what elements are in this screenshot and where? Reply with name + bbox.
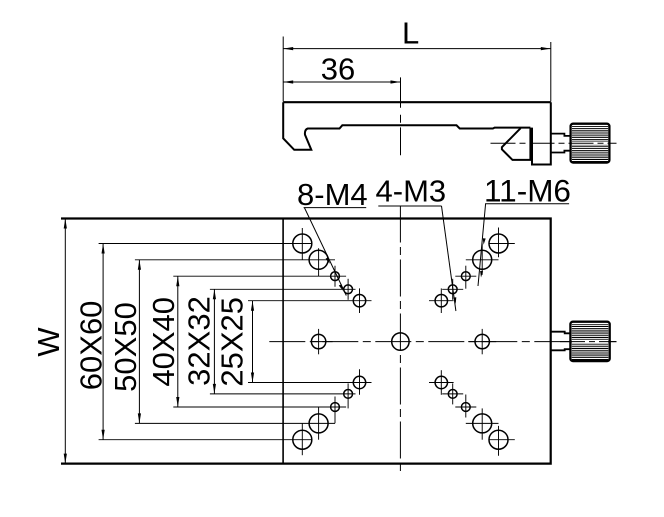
hole M6 60X60 bottom-right	[489, 426, 515, 456]
svg-text:11-M6: 11-M6	[484, 173, 571, 209]
label 4-M3 underline	[378, 205, 441, 207]
svg-text:32X32: 32X32	[182, 296, 217, 386]
hole M4 32X32 top-right	[442, 279, 463, 300]
hole M4 32X32 bottom-left	[344, 383, 353, 408]
svg-text:L: L	[402, 15, 419, 50]
plan view: knurled knob	[570, 322, 609, 361]
dimension 60X60 line	[102, 244, 104, 440]
hole M6 center	[392, 333, 409, 350]
hole M6 50X50 top-left	[309, 248, 328, 276]
extension lines 40X40 rows	[173, 275, 346, 277]
dimension 36 line	[283, 81, 400, 83]
hole M6 right on axis	[468, 329, 496, 354]
dimension 25X25 line	[252, 301, 254, 383]
hole M4 32X32 top-left	[344, 279, 353, 300]
hole M6 60X60 top-right	[489, 228, 515, 258]
svg-text:25X25: 25X25	[215, 297, 250, 387]
extension lines 60X60 rows	[99, 243, 313, 245]
hole M4 40X40 top-left	[331, 266, 340, 287]
extension lines 25X25 rows	[248, 300, 372, 302]
svg-text:50X50: 50X50	[108, 302, 143, 392]
side view: vertical centerline at 36	[400, 77, 402, 107]
dimension 32X32 line	[213, 289, 215, 394]
svg-text:36: 36	[321, 52, 355, 87]
side view: carriage body outline	[283, 101, 551, 103]
hole M4 40X40 top-right	[455, 266, 476, 289]
dimension 40X40 line	[177, 276, 179, 407]
svg-text:8-M4: 8-M4	[297, 177, 368, 212]
dimension 50X50 line	[138, 260, 140, 424]
hole M3 25X25 bottom-left	[353, 369, 365, 395]
hole M6 50X50 bottom-right	[466, 408, 499, 439]
label 11-M6 underline	[485, 203, 569, 205]
hole M6 50X50 top-right	[466, 244, 499, 275]
label 8-M4 leader	[304, 208, 346, 296]
hole M6 60X60 top-left (v-cross only, h is ext line)	[293, 228, 312, 260]
plan view: divider edge	[282, 219, 284, 464]
hole M4 32X32 bottom-right	[442, 383, 463, 404]
side view: knurled knob	[571, 124, 610, 163]
hole M4 40X40 bottom-left	[331, 397, 340, 424]
svg-text:40X40: 40X40	[146, 297, 181, 387]
side view: clamp pad with cone tip	[502, 128, 531, 160]
plan view: thumbscrew shaft	[551, 332, 571, 334]
hole M3 25X25 top-left	[353, 288, 365, 313]
label 4-M3 leader	[442, 206, 456, 311]
side view: screw axis centerline	[491, 142, 617, 144]
side view: left hook profile	[283, 102, 530, 150]
dimension L extension lines	[282, 37, 284, 102]
dimension W line	[64, 219, 66, 464]
svg-text:4-M3: 4-M3	[376, 174, 447, 209]
plan view: vertical centerline	[399, 206, 401, 473]
label 8-M4 underline	[304, 207, 367, 209]
extension lines 32X32 rows	[210, 288, 356, 290]
svg-text:W: W	[31, 327, 66, 357]
side view: thumbscrew shaft	[551, 134, 571, 136]
dimension L line	[283, 48, 551, 50]
hole M6 50X50 bottom-left	[309, 407, 328, 440]
extension lines 50X50 rows	[135, 259, 335, 261]
hole M4 40X40 bottom-right	[455, 395, 476, 418]
hole M3 25X25 bottom-right	[429, 370, 454, 395]
side view: clamp bracket	[532, 102, 551, 164]
svg-text:60X60: 60X60	[74, 301, 109, 391]
hole M3 25X25 top-right	[429, 288, 454, 313]
hole M6 60X60 bottom-left	[293, 423, 312, 455]
plan view: plate outline (no left edge, open)	[61, 219, 551, 464]
plan view: horizontal centerline	[269, 341, 616, 343]
hole M6 left on axis	[311, 329, 332, 354]
label 11-M6 leader	[478, 204, 486, 286]
